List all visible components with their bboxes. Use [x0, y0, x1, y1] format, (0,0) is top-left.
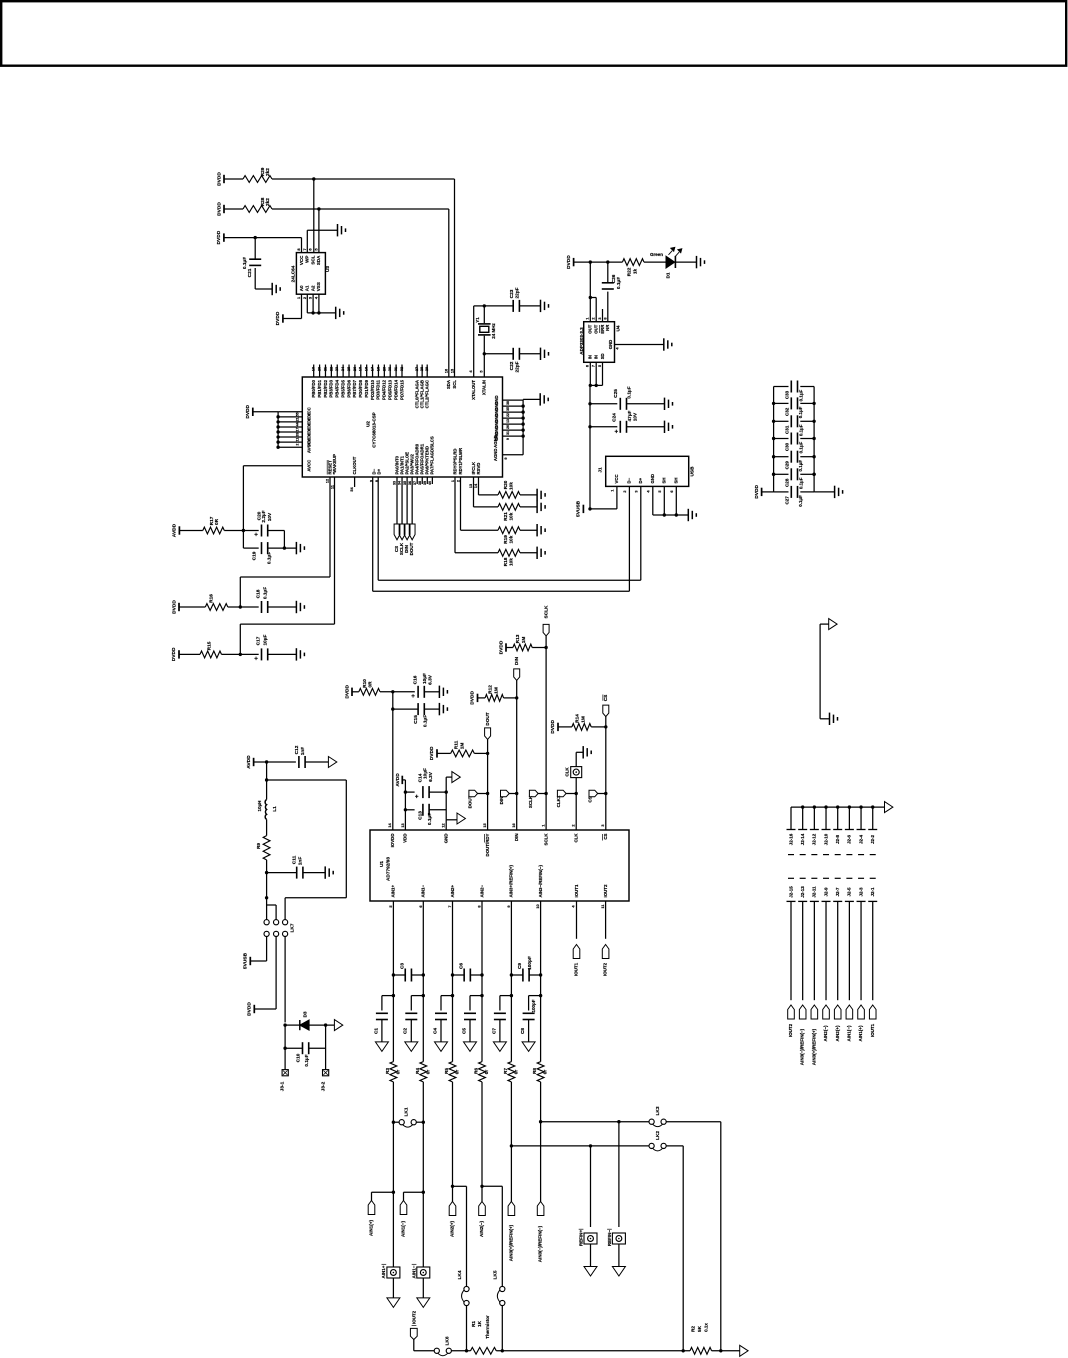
svg-text:3: 3: [598, 317, 602, 319]
node: [772, 473, 816, 476]
svg-text:R18: R18: [503, 557, 509, 566]
wire PA pin: [396, 477, 398, 524]
wire: [405, 791, 414, 793]
svg-text:6.3V: 6.3V: [428, 771, 434, 782]
wire: [814, 491, 835, 493]
svg-text:C18: C18: [256, 589, 262, 598]
wire: [352, 691, 359, 693]
wire: [250, 937, 266, 962]
resistor R4 0r: [415, 1062, 431, 1082]
power flag DVDD (R12): [470, 691, 478, 705]
svg-text:0r: 0r: [395, 1070, 401, 1075]
svg-text:0.1µF: 0.1µF: [798, 424, 803, 436]
capacitor C11 1nF: [292, 855, 304, 878]
svg-text:R11: R11: [453, 740, 459, 749]
svg-text:LK5: LK5: [493, 1270, 499, 1279]
svg-text:J2-2: J2-2: [870, 834, 875, 844]
svg-text:NR: NR: [605, 325, 610, 331]
capacitor C20 2.2uF 10V: [254, 510, 273, 538]
svg-text:10k: 10k: [508, 512, 514, 520]
svg-text:C25: C25: [613, 389, 619, 398]
svg-text:C9: C9: [517, 963, 523, 969]
svg-text:6.3V: 6.3V: [427, 674, 433, 685]
resistor R1 1K Thermistor: [471, 1315, 497, 1354]
svg-text:IOUT1: IOUT1: [574, 884, 579, 897]
node: [544, 792, 547, 795]
svg-text:LK2: LK2: [655, 1131, 661, 1140]
connector flag AIN2(+) (J2): [834, 1005, 841, 1041]
jumper LK1: [393, 1107, 423, 1127]
node R28/U3: [317, 207, 320, 210]
svg-text:38: 38: [418, 481, 422, 485]
svg-text:C32: C32: [784, 407, 789, 416]
svg-text:10µF: 10µF: [263, 634, 269, 645]
wire: [452, 1082, 454, 1202]
capacitor C4: [432, 996, 452, 1042]
svg-text:USB: USB: [690, 466, 696, 477]
svg-text:PB1/FD1: PB1/FD1: [317, 379, 322, 397]
svg-text:2: 2: [572, 824, 576, 826]
svg-text:C15: C15: [413, 715, 419, 724]
power flag DVDD (U3 VCC): [216, 230, 224, 244]
connector flag AIN3(+)/REFIN(+): [508, 1202, 515, 1262]
svg-text:C10: C10: [295, 1053, 301, 1062]
svg-text:D1: D1: [666, 272, 672, 278]
svg-text:C31: C31: [784, 425, 789, 434]
svg-text:J2-12: J2-12: [812, 833, 817, 845]
svg-text:37: 37: [413, 481, 417, 485]
label CS: [394, 546, 399, 552]
node: [391, 690, 394, 693]
connector flag CS: [394, 524, 400, 540]
ground (C16): [439, 686, 447, 698]
svg-text:AIN3(−)/REFIN(−): AIN3(−)/REFIN(−): [800, 1028, 805, 1065]
wire USB D- net: [373, 477, 630, 591]
node: [404, 790, 407, 793]
svg-text:C6: C6: [458, 963, 464, 969]
svg-text:AIN3(+)/REFIN(+): AIN3(+)/REFIN(+): [811, 1028, 816, 1065]
wire: [519, 353, 540, 355]
wire 5VUSB rail: [589, 385, 591, 509]
pin numbers U2 bottom: [326, 479, 479, 489]
ground (C17): [296, 648, 304, 660]
svg-text:1nF: 1nF: [300, 747, 306, 756]
wire: [540, 1082, 542, 1202]
svg-text:LK3: LK3: [655, 1106, 661, 1115]
svg-text:C33: C33: [784, 390, 789, 399]
svg-text:6: 6: [586, 365, 590, 367]
capacitor C12 1nF: [294, 745, 306, 768]
node: [265, 871, 268, 874]
svg-text:LK6: LK6: [445, 1336, 451, 1345]
wire: [590, 426, 617, 428]
svg-text:11: 11: [296, 438, 300, 442]
node C24 tap: [588, 425, 591, 428]
capacitor C25 0.1uF: [613, 386, 633, 410]
wire: [253, 411, 278, 413]
svg-text:5VUSB: 5VUSB: [243, 952, 249, 969]
ground (R18): [537, 547, 545, 559]
connector pin J2-9: [822, 887, 831, 1000]
svg-text:C26: C26: [611, 274, 617, 283]
wire RSVD: [479, 477, 499, 495]
capacitor C29 0.1uF: [774, 451, 815, 472]
wire: [506, 647, 513, 649]
svg-text:26: 26: [506, 425, 510, 429]
wire: [520, 552, 537, 554]
svg-text:D+: D+: [638, 477, 643, 483]
svg-text:R12: R12: [487, 685, 493, 694]
wire CS chain: [605, 717, 607, 830]
wire: [224, 208, 243, 210]
wire: [255, 268, 272, 289]
wire: [268, 547, 297, 549]
wire: [283, 294, 302, 318]
svg-text:R8: R8: [532, 1068, 538, 1074]
connector flag AIN1(-) (J2): [846, 1005, 853, 1041]
connector flag DIN: [404, 524, 410, 540]
wire AIN chain left: [452, 901, 454, 1062]
analog ground arrow (REFIN+): [584, 1267, 597, 1277]
capacitor C28 0.1uF: [774, 468, 815, 489]
svg-text:C13: C13: [417, 811, 423, 820]
resistor R6 0r: [474, 1062, 490, 1082]
svg-text:AIN1−: AIN1−: [411, 1265, 416, 1278]
wire: [666, 1122, 721, 1351]
wire loop to LK7: [267, 780, 347, 920]
svg-text:22: 22: [329, 367, 333, 371]
svg-text:0.1µF: 0.1µF: [263, 587, 269, 599]
ground (R19): [537, 524, 545, 536]
svg-text:C27: C27: [784, 496, 789, 505]
svg-text:CLK: CLK: [574, 833, 579, 843]
wire: [627, 426, 665, 428]
svg-text:17: 17: [371, 367, 375, 371]
svg-text:17: 17: [296, 427, 300, 431]
capacitor C18 0.1uF: [256, 587, 269, 613]
svg-text:C3: C3: [399, 963, 405, 969]
svg-text:J2-15: J2-15: [788, 886, 793, 898]
svg-text:35: 35: [403, 481, 407, 485]
node: [675, 513, 678, 516]
analog ground arrow (star point): [829, 619, 837, 630]
svg-text:RSVD: RSVD: [476, 463, 481, 475]
power flag DVDD (R29): [216, 172, 224, 186]
ground (cap bank): [835, 486, 843, 498]
svg-text:PD2/FD10: PD2/FD10: [370, 379, 375, 400]
svg-text:1K: 1K: [477, 1320, 483, 1327]
svg-text:L1: L1: [272, 806, 278, 812]
svg-text:C30: C30: [784, 442, 789, 451]
capacitor C24 47uF 10V: [611, 410, 638, 435]
connector flag IOUT2: [602, 945, 609, 977]
wire: [228, 606, 259, 608]
svg-text:IOUT2: IOUT2: [411, 1310, 416, 1324]
node: [510, 1144, 513, 1147]
svg-text:DVDD: DVDD: [171, 647, 177, 661]
svg-text:U3: U3: [325, 266, 331, 272]
svg-text:VCC: VCC: [614, 474, 619, 483]
svg-text:2k2: 2k2: [265, 198, 271, 206]
node: [422, 1121, 425, 1124]
svg-text:R3: R3: [385, 1068, 391, 1074]
svg-text:0.1µF: 0.1µF: [798, 441, 803, 453]
wire: [541, 1121, 649, 1123]
analog ground arrow (rail): [740, 1345, 748, 1356]
label 100pF (C8): [531, 999, 536, 1012]
wire SDA net: [272, 209, 449, 377]
wire: [590, 298, 596, 322]
svg-text:PB6/FD6: PB6/FD6: [346, 379, 351, 397]
capacitor C1: [373, 996, 393, 1042]
svg-text:0R: 0R: [214, 518, 220, 525]
wire: [284, 937, 286, 1023]
ground (star point): [830, 713, 838, 725]
wire: [392, 692, 394, 830]
svg-text:C19: C19: [252, 551, 258, 560]
wire: [482, 1186, 502, 1286]
wire RDY0: [455, 477, 498, 553]
wire: [275, 937, 277, 1010]
wire AIN chain left: [392, 901, 394, 1062]
wire: [484, 305, 513, 307]
svg-text:LK1: LK1: [403, 1107, 409, 1116]
analog ground arrow (REFIN-): [612, 1267, 625, 1277]
node: [392, 1121, 395, 1124]
node: [324, 1023, 327, 1026]
capacitor C16 10uF 6.3V: [411, 673, 433, 700]
node: [480, 973, 483, 976]
node: [604, 792, 607, 795]
svg-text:AVDD: AVDD: [246, 755, 252, 769]
svg-text:0.1µF: 0.1µF: [798, 495, 803, 507]
svg-text:J2-4: J2-4: [858, 834, 863, 844]
svg-text:16: 16: [365, 367, 369, 371]
connector flag SCLK: [399, 524, 405, 540]
svg-text:5VUSB: 5VUSB: [576, 500, 582, 517]
power flag DVDD (R13): [498, 640, 506, 654]
connector pin J2-15: [787, 886, 796, 1000]
wire: [574, 261, 623, 263]
svg-text:R4: R4: [415, 1068, 421, 1074]
connector pin J2-7: [833, 887, 842, 1000]
svg-text:J2-16: J2-16: [788, 833, 793, 845]
resistor R12 1M: [485, 685, 504, 702]
svg-text:J2-9: J2-9: [823, 887, 828, 897]
node: [480, 994, 483, 997]
wire: [478, 697, 486, 699]
wire: [520, 529, 537, 531]
ground (U3 VSS): [336, 307, 344, 319]
svg-text:CS: CS: [588, 796, 593, 802]
svg-text:PB4/FD4: PB4/FD4: [335, 379, 340, 397]
wire: [466, 1306, 468, 1351]
resistor R18 10k: [498, 549, 520, 566]
svg-text:13: 13: [506, 419, 510, 423]
resistor R15: [200, 641, 222, 658]
svg-text:C14: C14: [417, 773, 423, 782]
wire: [511, 1145, 649, 1147]
svg-text:C29: C29: [784, 461, 789, 470]
node: [510, 994, 513, 997]
svg-text:13: 13: [401, 823, 405, 827]
power flag DVDD (R16): [171, 600, 179, 614]
resistor R9: [256, 836, 270, 860]
wire DIN chain: [516, 680, 518, 830]
svg-text:C8: C8: [520, 1028, 526, 1034]
wire: [318, 209, 320, 253]
svg-text:CS: CS: [603, 833, 608, 839]
resistor R2 5K 0.1%: [690, 1323, 712, 1355]
svg-text:IN: IN: [588, 355, 593, 359]
svg-text:0.1µF: 0.1µF: [798, 477, 803, 489]
svg-text:7: 7: [448, 905, 452, 907]
ground (C23): [541, 300, 549, 312]
power flag DVDD (U2 VCC): [245, 404, 253, 418]
ground (U4 GND): [664, 338, 672, 350]
svg-text:24 MHz: 24 MHz: [491, 322, 496, 338]
node C25 tap: [588, 402, 591, 405]
svg-text:23: 23: [335, 367, 339, 371]
svg-text:DVDD: DVDD: [247, 1002, 253, 1016]
svg-text:10k: 10k: [508, 535, 514, 543]
test point AIN1-: [411, 1264, 429, 1278]
svg-text:Y1: Y1: [475, 317, 480, 323]
node: [422, 994, 425, 997]
wire AIN chain left: [510, 901, 512, 1062]
svg-text:D−: D−: [627, 477, 632, 483]
node R16/C18: [239, 605, 242, 608]
IC U3 24LC64: [291, 248, 331, 300]
svg-text:DIN: DIN: [514, 834, 519, 842]
resistor R13 1M: [513, 634, 532, 651]
svg-text:DVDD: DVDD: [566, 255, 572, 269]
wire WAKEUP net: [240, 477, 334, 654]
svg-text:19: 19: [312, 367, 316, 371]
capacitor C17 10uF: [254, 634, 269, 662]
analog ground arrow (J2 bus): [885, 802, 893, 813]
analog ground arrow (C1): [375, 1042, 388, 1052]
svg-text:CLK: CLK: [565, 767, 570, 777]
resistor R21 10k: [498, 504, 520, 521]
svg-text:DOUT: DOUT: [467, 795, 472, 808]
svg-text:R14: R14: [574, 714, 580, 723]
node: [486, 752, 489, 755]
wire: [325, 1025, 327, 1070]
label SCLK: [399, 542, 404, 555]
svg-text:D3: D3: [302, 1011, 308, 1017]
node: [604, 725, 607, 728]
svg-text:AIN3(−)/REFIN(−): AIN3(−)/REFIN(−): [538, 1225, 543, 1262]
wire: [254, 1008, 276, 1010]
svg-text:AIN1+: AIN1+: [381, 1265, 386, 1278]
wire bank right rail: [813, 387, 815, 492]
svg-text:J2-8: J2-8: [835, 834, 840, 844]
node: [451, 973, 454, 976]
power flag AVDD (U1 VDD): [395, 773, 402, 787]
node: [422, 1191, 425, 1194]
svg-text:47µF: 47µF: [627, 410, 633, 421]
svg-text:R13: R13: [515, 634, 521, 643]
jumper LK5: [493, 1270, 505, 1305]
pin stub CLKOUT: [350, 477, 354, 492]
svg-text:C11: C11: [292, 855, 298, 864]
ground (C15): [439, 703, 447, 715]
svg-text:6: 6: [670, 490, 674, 492]
svg-text:1M: 1M: [580, 716, 586, 723]
ground (C19): [296, 542, 304, 554]
svg-text:REFIN−: REFIN−: [607, 1230, 612, 1247]
connector flag AIN1(-): [400, 1201, 407, 1237]
capacitor C2: [403, 996, 424, 1042]
svg-text:J3-1: J3-1: [280, 1081, 286, 1091]
wire: [675, 261, 696, 263]
svg-text:0.1µF: 0.1µF: [616, 277, 622, 289]
node: [539, 1120, 542, 1123]
crystal Y1 24MHz: [475, 306, 496, 354]
node: [265, 778, 268, 781]
svg-text:IOUT2: IOUT2: [788, 1023, 793, 1037]
node: [719, 1349, 722, 1352]
svg-text:44: 44: [296, 422, 300, 426]
wire: [243, 531, 258, 549]
svg-text:R22: R22: [627, 267, 633, 276]
wire: [393, 708, 418, 710]
ground (C21): [272, 283, 280, 295]
node: [772, 402, 816, 405]
svg-text:0r: 0r: [425, 1070, 431, 1075]
wire: [424, 691, 439, 693]
wire: [607, 292, 609, 322]
svg-text:A2: A2: [310, 285, 315, 291]
svg-text:0.1µF: 0.1µF: [267, 552, 273, 564]
IC U1 AD7792/93 ADC: [370, 823, 629, 909]
wire bank left rail: [773, 387, 775, 492]
power flag DVDD (R15): [171, 647, 179, 661]
svg-text:J2-13: J2-13: [800, 886, 805, 898]
wire: [179, 653, 200, 655]
node: [486, 792, 489, 795]
svg-text:OUT: OUT: [593, 324, 598, 333]
svg-text:9: 9: [507, 905, 511, 907]
wire SCLK chain: [545, 636, 547, 830]
svg-text:38: 38: [506, 401, 510, 405]
wire RDY1: [461, 477, 499, 530]
svg-text:AGND: AGND: [493, 435, 498, 448]
wire: [268, 606, 297, 608]
node: [392, 1191, 395, 1194]
wire AIN chain right: [481, 901, 483, 1062]
svg-text:6: 6: [419, 905, 423, 907]
svg-text:0.1µF: 0.1µF: [304, 1054, 310, 1066]
svg-text:0r: 0r: [455, 1070, 461, 1075]
svg-text:A0: A0: [299, 285, 304, 291]
wire AVCC pin: [243, 466, 302, 531]
wire PA pin: [406, 477, 408, 524]
wire REFIN- drop: [618, 1122, 620, 1227]
node: [265, 760, 268, 763]
svg-text:C5: C5: [461, 1028, 467, 1034]
svg-text:C23: C23: [509, 289, 515, 298]
wire: [285, 1047, 302, 1049]
wire: [520, 494, 537, 496]
svg-text:CTL2/*FLAGC: CTL2/*FLAGC: [424, 380, 429, 408]
svg-text:33: 33: [393, 481, 397, 485]
svg-text:J2-3: J2-3: [858, 887, 863, 897]
node: [515, 696, 518, 699]
svg-text:DVDD: DVDD: [216, 230, 222, 244]
pin stub ERR: [602, 309, 604, 322]
